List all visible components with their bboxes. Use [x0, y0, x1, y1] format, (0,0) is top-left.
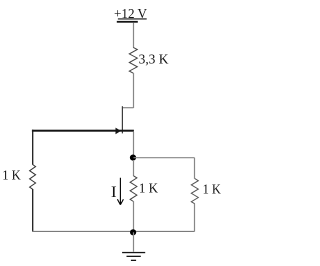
wire supply to R 3.3K [133, 23, 135, 48]
wire right branch bottom [194, 204, 196, 232]
current I arrow [117, 178, 123, 205]
transistor Q1 gate arrow [116, 128, 121, 135]
+12V label underline [118, 18, 147, 20]
wire bottom rail [32, 230, 194, 232]
svg-text:+12 V: +12 V [114, 7, 147, 22]
wire right branch top [194, 158, 196, 179]
svg-text:3,3 K: 3,3 K [139, 52, 169, 67]
wire gate (thick) [32, 130, 134, 132]
wire node S to right branch [134, 157, 195, 159]
resistor 1 K middle [130, 176, 137, 202]
+12V supply terminal bar [117, 21, 138, 23]
node ground junction dot [130, 229, 136, 235]
wire left branch vertical top [32, 130, 34, 165]
resistor 3,3 K [129, 47, 137, 73]
svg-text:1 K: 1 K [203, 182, 221, 197]
wire R middle to bottom node [133, 201, 135, 231]
wire drain jog [122, 107, 133, 109]
wire node S to R middle [133, 160, 135, 176]
node S junction dot [130, 155, 136, 161]
wire left branch vertical bottom [32, 189, 34, 232]
wire source to node S [133, 132, 135, 158]
wire ground stem [133, 232, 135, 251]
svg-text:1 K: 1 K [139, 182, 158, 197]
resistor 1 K left [30, 165, 36, 190]
transistor Q1 channel bar [121, 106, 123, 133]
wire R 3.3K to transistor drain [133, 73, 135, 108]
resistor 1 K right [191, 179, 198, 204]
svg-text:I: I [111, 184, 117, 201]
ground [122, 252, 145, 253]
svg-text:1 K: 1 K [2, 168, 21, 183]
